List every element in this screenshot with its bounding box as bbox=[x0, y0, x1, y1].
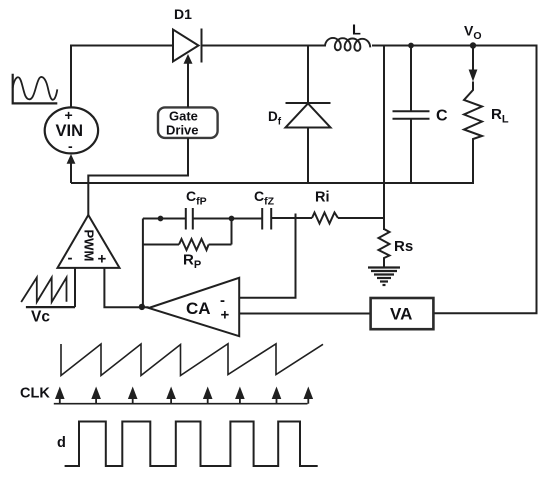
wire sense branch from top rail down to Rs bbox=[383, 46, 385, 231]
svg-text:Gate: Gate bbox=[169, 109, 198, 124]
capacitor C bbox=[393, 46, 430, 184]
svg-text:CLK: CLK bbox=[20, 386, 50, 402]
svg-text:+: + bbox=[65, 107, 73, 123]
svg-text:RP: RP bbox=[183, 252, 201, 272]
wire CA inverting input up to CfZ/Ri node bbox=[239, 214, 295, 298]
wire CA non-inverting input to VA bbox=[239, 313, 370, 315]
resistor Rs bbox=[379, 229, 390, 267]
wire PWM output to gate drive bbox=[88, 138, 188, 215]
svg-text:RL: RL bbox=[491, 106, 509, 126]
resistor Rp branch bbox=[143, 219, 232, 251]
svg-text:Rs: Rs bbox=[394, 238, 413, 255]
wire arrow into VIN bottom (return path) bbox=[70, 161, 72, 183]
node dot CA output bbox=[139, 304, 145, 310]
svg-text:PWM: PWM bbox=[82, 230, 97, 262]
svg-text:C: C bbox=[436, 108, 448, 125]
svg-text:-: - bbox=[68, 138, 73, 154]
svg-text:CfP: CfP bbox=[186, 188, 207, 208]
op-amp CA bbox=[149, 278, 240, 336]
svg-text:VA: VA bbox=[390, 305, 412, 324]
svg-text:Ri: Ri bbox=[315, 190, 330, 206]
sine wave input icon bbox=[13, 74, 58, 104]
ramp Vc icon bbox=[21, 278, 75, 308]
op-amp PWM comparator bbox=[58, 215, 120, 268]
CLK arrows bbox=[55, 387, 313, 404]
svg-text:+: + bbox=[221, 307, 230, 324]
ground bbox=[368, 268, 400, 286]
wire gate arrow into D1 bbox=[187, 62, 189, 107]
wire feedback vertical bbox=[142, 219, 144, 307]
svg-text:L: L bbox=[352, 23, 361, 39]
svg-text:CfZ: CfZ bbox=[254, 188, 275, 208]
wire top rail VIN to D1 anode bbox=[71, 46, 173, 108]
node dot at C top bbox=[408, 43, 414, 49]
svg-text:Drive: Drive bbox=[166, 123, 199, 138]
svg-text:CA: CA bbox=[186, 299, 211, 318]
box VA bbox=[371, 298, 434, 329]
wire D1 cathode to inductor bbox=[202, 45, 326, 47]
svg-text:VO: VO bbox=[464, 23, 482, 43]
waveform d square wave bbox=[65, 422, 318, 467]
svg-text:Vc: Vc bbox=[31, 309, 50, 326]
node Vo dot bbox=[470, 42, 476, 48]
wire CfP to CfZ bbox=[193, 218, 262, 220]
capacitor CfP bbox=[186, 208, 193, 230]
diode D1 bbox=[173, 29, 202, 63]
waveform CLK axis bbox=[54, 403, 308, 405]
wire compensation top bbox=[143, 218, 185, 220]
svg-text:-: - bbox=[68, 250, 73, 267]
resistor Ri bbox=[312, 213, 338, 224]
svg-text:D1: D1 bbox=[174, 6, 192, 22]
wire CfZ to Ri to Rs-node bbox=[271, 217, 312, 219]
svg-text:Df: Df bbox=[268, 109, 282, 128]
waveform sawtooth large bbox=[61, 344, 323, 376]
svg-text:+: + bbox=[98, 251, 107, 268]
wire Vo arrow down to RL bbox=[472, 46, 474, 78]
node dot left bbox=[158, 216, 164, 222]
inductor L bbox=[325, 38, 370, 51]
capacitor CfZ bbox=[262, 208, 271, 230]
gate drive box bbox=[158, 107, 218, 137]
wire PWM plus input from CA output bbox=[104, 268, 148, 307]
resistor RL bbox=[464, 82, 482, 184]
wire inductor to top-right corner, down right side, into VA right pin bbox=[372, 46, 537, 314]
svg-text:d: d bbox=[57, 435, 66, 451]
diode Df bbox=[286, 46, 331, 184]
wire bottom rail bbox=[71, 182, 474, 184]
node dot right bbox=[229, 216, 235, 222]
wire PWM minus input bbox=[74, 268, 76, 307]
source VIN bbox=[45, 107, 98, 153]
